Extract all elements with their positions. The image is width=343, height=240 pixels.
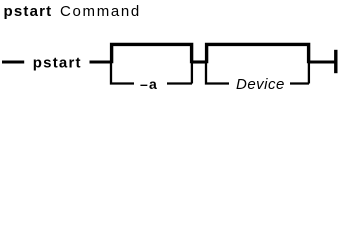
svg-text:pstart: pstart <box>33 55 82 72</box>
svg-text:Command: Command <box>60 3 141 20</box>
svg-text:–a: –a <box>140 76 158 92</box>
svg-text:Device: Device <box>236 76 285 93</box>
svg-text:pstart: pstart <box>4 3 53 20</box>
